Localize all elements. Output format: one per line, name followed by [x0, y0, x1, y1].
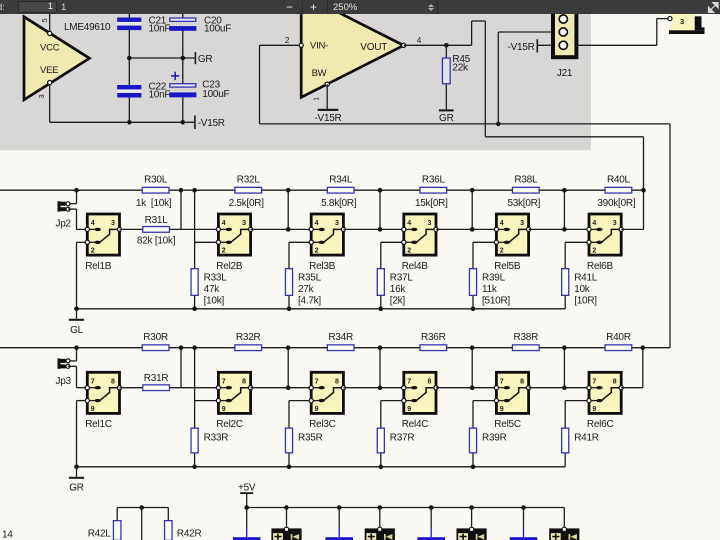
svg-text:R37R: R37R [390, 433, 415, 444]
wire Rel2B pin2 [195, 241, 219, 243]
junction pin-wire stage4 [378, 227, 383, 232]
svg-text:R32R: R32R [236, 332, 261, 343]
svg-text:BW: BW [312, 68, 327, 79]
svg-text:4: 4 [222, 220, 226, 227]
svg-text:R33R: R33R [204, 433, 229, 444]
junction bus to Jp3 [74, 345, 79, 350]
svg-text:53k[0R]: 53k[0R] [507, 198, 540, 209]
junction bus stage4 [378, 188, 383, 193]
svg-text:4: 4 [500, 220, 504, 227]
label R37L [390, 273, 414, 307]
bus wire row C [0, 347, 643, 349]
svg-text:7: 7 [592, 378, 596, 385]
svg-text:J21: J21 [557, 68, 573, 79]
junction bus stage3 [286, 188, 291, 193]
junction GR shunt 2 [192, 465, 197, 470]
svg-text:[2k]: [2k] [390, 296, 406, 307]
capacitor bypass 3 [417, 508, 445, 540]
svg-text:R36L: R36L [422, 175, 446, 186]
capacitor bypass 4 [510, 508, 538, 540]
svg-text:3: 3 [520, 220, 524, 227]
label R33R [204, 433, 229, 444]
svg-text:2: 2 [91, 248, 95, 255]
relay Rel2C [216, 372, 252, 430]
junction rail coil 2 [378, 505, 383, 510]
svg-text:R31R: R31R [144, 373, 169, 384]
wire feedback down right side [643, 124, 670, 348]
junction rail capacitor 1 [244, 505, 249, 510]
label R36R [421, 332, 446, 343]
wire Rel6B pin2 to shunt [565, 242, 589, 268]
svg-text:R34R: R34R [328, 332, 353, 343]
ground GR below R45 [439, 109, 454, 123]
resistor R41L shunt [562, 269, 569, 296]
wire Rel3C pin8 to Rel4C pin7 [343, 387, 403, 389]
junction rail capacitor 3 [429, 505, 434, 510]
wire R41L bottom lead [564, 296, 566, 309]
relay coil K4 [549, 527, 579, 540]
resistor R33R shunt [191, 428, 198, 453]
svg-text:7: 7 [500, 378, 504, 385]
junction bus end R40L [641, 188, 646, 193]
value 5.8k[0R] [321, 198, 357, 209]
svg-text:3: 3 [680, 17, 684, 26]
resistor R31R [143, 385, 170, 391]
label R33L [204, 273, 228, 307]
relay Rel3B [309, 214, 345, 272]
junction VEE rail at C22 [127, 120, 132, 125]
svg-text:15k[0R]: 15k[0R] [415, 198, 448, 209]
svg-text:14: 14 [2, 530, 13, 540]
svg-text:3: 3 [613, 220, 617, 227]
junction GL shunt 3 [287, 307, 292, 312]
svg-text:7: 7 [407, 378, 411, 385]
junction GR shunt 5 [471, 465, 476, 470]
resistor R42R [165, 521, 173, 540]
wire Rel3C pin9 to shunt [289, 401, 311, 428]
pin number 4 [417, 36, 422, 45]
svg-text:7: 7 [91, 378, 95, 385]
svg-text:10nF: 10nF [149, 24, 171, 35]
svg-text:82k [10k]: 82k [10k] [137, 236, 176, 247]
junction bus stage2 B [192, 188, 197, 193]
wire -V15R tick to J21 pin [537, 44, 563, 46]
relay Rel2B [216, 214, 252, 272]
wire VIN- input from feedback [260, 44, 302, 46]
label R38R [514, 332, 539, 343]
svg-text:9: 9 [500, 406, 504, 413]
resistor R37L shunt [377, 269, 384, 296]
wire rail to coil 3 [471, 508, 473, 530]
label U20 LME49610 [64, 22, 111, 33]
junction bus stage2 A [179, 188, 184, 193]
wire rail to coil 2 [379, 508, 381, 530]
relay coil K1 [271, 527, 301, 540]
svg-text:4: 4 [407, 220, 411, 227]
wire bus to Jp2 top pin [68, 190, 77, 204]
label R36L [422, 175, 446, 186]
svg-text:Rel6B: Rel6B [587, 261, 614, 272]
svg-text:4: 4 [315, 220, 319, 227]
label R31R [144, 373, 169, 384]
svg-text:9: 9 [222, 406, 226, 413]
svg-text:3: 3 [37, 95, 46, 99]
svg-text:2: 2 [407, 248, 411, 255]
power +5V [238, 483, 256, 508]
junction bus C stage4 [378, 345, 383, 350]
svg-text:GR: GR [439, 113, 454, 124]
resistor R31L [143, 227, 170, 233]
connector fragment pin 3 top right [668, 14, 705, 34]
junction rail coil 1 [284, 505, 289, 510]
svg-text:Rel2C: Rel2C [216, 419, 243, 430]
wire VEE rail to -V15R [50, 121, 196, 123]
label R42L [88, 529, 112, 540]
label C20 100uF [204, 15, 231, 34]
svg-text:2.5k[0R]: 2.5k[0R] [229, 198, 265, 209]
wire Rel4B pin2 to shunt [381, 242, 404, 268]
wire bus tap C stage4 [379, 348, 381, 388]
net label 14 [2, 530, 13, 540]
label R34L [329, 175, 353, 186]
junction GR rail at C21 [127, 56, 132, 61]
relay coil K3 [457, 527, 487, 540]
resistor R41R shunt [562, 428, 569, 453]
wire Rel4B pin3 to Rel5B pin4 [436, 228, 496, 230]
wire feedback vertical left [259, 45, 261, 124]
junction GL shunt 4 [379, 307, 384, 312]
svg-text:4: 4 [91, 220, 95, 227]
junction GR shunt 3 [287, 465, 292, 470]
junction GL shunt 5 [471, 307, 476, 312]
svg-text:R40R: R40R [606, 332, 631, 343]
junction GR left [74, 465, 79, 470]
pin number 2 [285, 36, 290, 45]
wire VOUT to R45 and loop [404, 21, 486, 137]
svg-text:8: 8 [428, 378, 432, 385]
label R42R [177, 529, 202, 540]
wire R45 bottom lead [445, 84, 447, 109]
wire R33R bottom lead [194, 454, 196, 467]
svg-text:Jp3: Jp3 [56, 376, 72, 387]
net tick -V15R at J21 [507, 39, 537, 53]
svg-text:100uF: 100uF [202, 89, 229, 100]
ground symbol GL [69, 309, 84, 336]
svg-text:9: 9 [407, 406, 411, 413]
svg-text:GL: GL [70, 325, 84, 336]
junction bus C stage6 [562, 345, 567, 350]
svg-text:R36R: R36R [421, 332, 446, 343]
svg-text:Rel6C: Rel6C [587, 419, 614, 430]
svg-text:R38L: R38L [514, 175, 538, 186]
svg-text:R39R: R39R [482, 433, 507, 444]
wire R37R bottom lead [380, 454, 382, 467]
svg-text:3: 3 [242, 220, 246, 227]
value 15k[0R] [415, 198, 448, 209]
resistor R36R [420, 345, 447, 351]
svg-text:1k [10k]: 1k [10k] [136, 198, 172, 209]
wire capacitor column C21/C22 [128, 13, 130, 122]
svg-text:R30R: R30R [143, 332, 168, 343]
junction GR rail at C20 [181, 56, 186, 61]
label R45 22k [452, 54, 470, 73]
wire Rel1C pin9 to GR [77, 401, 88, 467]
net tick GR top [195, 52, 212, 65]
label R38L [514, 175, 538, 186]
resistor R32R [235, 345, 262, 351]
capacitor C22 [117, 85, 141, 98]
junction bus C stage2 A [179, 345, 184, 350]
label R37R [390, 433, 415, 444]
svg-text:R41L: R41L [574, 273, 598, 284]
svg-text:Rel4B: Rel4B [402, 261, 429, 272]
svg-text:2: 2 [592, 248, 596, 255]
resistor R36L [420, 187, 447, 193]
svg-text:7: 7 [315, 378, 319, 385]
label R30L [144, 175, 168, 186]
svg-text:Rel5B: Rel5B [494, 261, 521, 272]
svg-text:R34L: R34L [329, 175, 353, 186]
ground symbol GR [69, 467, 84, 494]
wire Rel1C pin8 to R31R [120, 387, 143, 389]
svg-text:8: 8 [613, 378, 617, 385]
junction bus C stage5 [470, 345, 475, 350]
svg-text:R38R: R38R [514, 332, 539, 343]
resistor R33L shunt [191, 269, 198, 296]
svg-text:-V15R: -V15R [314, 113, 341, 124]
svg-text:R41R: R41R [574, 433, 599, 444]
junction pin-wire stage6 [562, 227, 567, 232]
op-amp U21 buffer [299, 0, 406, 97]
wire R31R to Rel2C pin7 [170, 387, 218, 389]
junction pin-wire C stage5 [470, 385, 475, 390]
net tick -V15R left [195, 115, 225, 129]
svg-text:5.8k[0R]: 5.8k[0R] [321, 198, 357, 209]
svg-text:3: 3 [111, 220, 115, 227]
label R32R [236, 332, 261, 343]
svg-text:9: 9 [315, 406, 319, 413]
svg-text:Rel2B: Rel2B [216, 261, 243, 272]
wire op-amp U20 pin5 to toolbar [49, 13, 51, 33]
svg-text:3: 3 [335, 220, 339, 227]
junction bus to Jp2 [74, 188, 79, 193]
resistor R32L [235, 187, 262, 193]
grey off-page region [0, 14, 591, 150]
svg-text:R32L: R32L [237, 175, 261, 186]
relay Rel3C [309, 372, 345, 430]
svg-text:LME49610: LME49610 [64, 22, 111, 33]
relay Rel5C [494, 372, 530, 430]
wire bus tap C stage6 [563, 348, 565, 388]
wire R39L bottom lead [472, 296, 474, 309]
svg-text:R30L: R30L [144, 175, 168, 186]
junction bus stage6 [562, 188, 567, 193]
svg-text:GR: GR [198, 54, 213, 65]
wire Jp2 to Rel1B pin4 [68, 209, 87, 229]
relay Rel6C [587, 372, 623, 430]
jumper Jp2 [56, 201, 72, 229]
junction pin-wire stage3 [286, 227, 291, 232]
svg-text:100uF: 100uF [204, 24, 231, 35]
capacitor bypass 2 [325, 508, 353, 540]
label J21 [557, 68, 573, 79]
label R35R [298, 433, 323, 444]
svg-text:R35L: R35L [298, 273, 322, 284]
pin number 1 [311, 97, 320, 101]
resistor R35L shunt [285, 269, 292, 296]
svg-text:Rel1B: Rel1B [85, 261, 112, 272]
wire J21 bottom pin to connector 3 [563, 19, 670, 46]
ground bus GL [77, 308, 566, 310]
jumper Jp3 [56, 358, 72, 387]
svg-text:R42R: R42R [177, 529, 202, 540]
resistor R38R [512, 345, 539, 351]
svg-text:Rel3C: Rel3C [309, 419, 336, 430]
wire Rel6C pin9 to shunt [565, 401, 589, 428]
wire op-amp U20 pin3 down to VEE rail [49, 83, 51, 123]
svg-text:11k: 11k [482, 284, 498, 295]
value 390k[0R] [597, 198, 635, 209]
junction feedback to J21 [496, 122, 501, 127]
wire bus tap C stage5 [471, 348, 473, 388]
resistor R40R [605, 345, 632, 351]
relay Rel4B [402, 214, 438, 272]
svg-text:10k: 10k [574, 284, 591, 295]
svg-text:R33L: R33L [204, 273, 228, 284]
value 1k [10k] [136, 198, 172, 209]
wire Rel1B pin3 to R31L [120, 228, 143, 230]
junction GR shunt 4 [379, 465, 384, 470]
svg-text:[10R]: [10R] [574, 296, 597, 307]
svg-text:3: 3 [428, 220, 432, 227]
junction pin-wire stage5 [470, 227, 475, 232]
label R41L [574, 273, 598, 307]
wire bus tap stage4 [379, 190, 381, 229]
wire R33L bottom lead [194, 296, 196, 309]
relay Rel5B [494, 214, 530, 272]
svg-text:R37L: R37L [390, 273, 414, 284]
resistor R40L [605, 187, 632, 193]
wire bus tap to pin4 wire stage2 [180, 190, 182, 229]
wire Rel5B pin2 to shunt [473, 242, 496, 268]
wire bus to Jp3 top pin [68, 348, 77, 361]
junction R42 center [139, 505, 144, 510]
wire Jp3 to Rel1C pin7 [68, 366, 87, 387]
label R31L [145, 215, 169, 226]
svg-text:Rel5C: Rel5C [494, 419, 521, 430]
svg-text:4: 4 [592, 220, 596, 227]
svg-text:5: 5 [40, 19, 49, 23]
wire +5V rail [247, 508, 565, 530]
resistor R34R [327, 345, 354, 351]
svg-text:GR: GR [69, 483, 84, 494]
value 2.5k[0R] [229, 198, 265, 209]
wire output loop to R40L [485, 137, 643, 230]
resistor R34L [327, 187, 354, 193]
svg-text:[10k]: [10k] [204, 296, 225, 307]
plus mark C23 [171, 72, 179, 80]
label R39L [482, 273, 510, 307]
capacitor C23 polarized [169, 84, 196, 98]
label C21 10nF [149, 15, 171, 34]
svg-text:2: 2 [222, 248, 226, 255]
junction pin-wire C stage4 [378, 385, 383, 390]
svg-text:VEE: VEE [40, 65, 58, 76]
relay coil K2 [365, 527, 395, 540]
capacitor C21 [117, 18, 141, 31]
wire Rel5C pin9 to shunt [473, 401, 496, 428]
ground bus GR [77, 466, 566, 468]
svg-text:8: 8 [111, 378, 115, 385]
resistor R39L shunt [469, 269, 476, 296]
resistor R37R shunt [377, 428, 384, 453]
value 82k [10k] [137, 236, 176, 247]
label R40R [606, 332, 631, 343]
op-amp U20 LME49610 [24, 17, 90, 100]
wire Rel4C pin8 to Rel5C pin7 [436, 387, 496, 389]
relay Rel1B [85, 214, 121, 272]
wire Rel2C pin8 to Rel3C pin7 [251, 387, 312, 389]
svg-text:Rel4C: Rel4C [402, 419, 429, 430]
svg-text:R42L: R42L [88, 529, 112, 540]
svg-text:8: 8 [520, 378, 524, 385]
svg-text:9: 9 [592, 406, 596, 413]
resistor R39R shunt [469, 428, 476, 453]
value 53k[0R] [507, 198, 540, 209]
wire bus tap stage6 [563, 190, 565, 229]
label R30R [143, 332, 168, 343]
wire Rel5C pin8 to Rel6C pin7 [529, 387, 589, 389]
wire Rel4C pin9 to shunt [381, 401, 404, 428]
junction VOUT R45 [444, 43, 449, 48]
svg-text:VOUT: VOUT [360, 42, 387, 53]
wire Rel5B pin3 to Rel6B pin4 [529, 228, 589, 230]
capacitor C20 polarized [169, 18, 196, 31]
wire bus tap stage3 [287, 190, 289, 229]
wire bus to shunt R33R [194, 348, 196, 428]
junction bus C stage2 B [192, 345, 197, 350]
power -V15R below BW pin [314, 84, 341, 124]
bus wire row B [0, 189, 644, 191]
wire capacitor column C20/C23 [182, 13, 184, 122]
svg-text:16k: 16k [390, 284, 407, 295]
relay Rel4C [402, 372, 438, 430]
resistor R42L [113, 521, 121, 540]
resistor R38L [512, 187, 539, 193]
resistor R35R shunt [285, 428, 292, 453]
svg-text:27k: 27k [298, 284, 315, 295]
svg-text:2: 2 [500, 248, 504, 255]
wire R31L to Rel2B pin4 [170, 228, 218, 230]
wire Rel6C pin8 to bus end [621, 348, 643, 388]
junction VEE rail at C23 [181, 120, 186, 125]
wire R39R bottom lead [472, 454, 474, 467]
junction pin-wire C stage3 [286, 385, 291, 390]
wire Rel2B pin3 to Rel3B pin4 [251, 228, 312, 230]
wire R35L bottom lead [288, 296, 290, 309]
junction rail coil 3 [469, 505, 474, 510]
pin number 3 [37, 95, 46, 99]
wire bus tap C stage3 [287, 348, 289, 388]
relay Rel1C [85, 372, 121, 430]
junction bus C stage3 [286, 345, 291, 350]
svg-text:R31L: R31L [145, 215, 169, 226]
wire Rel2C pin9 [195, 400, 219, 402]
label C22 10nF [149, 81, 171, 100]
svg-text:8: 8 [335, 378, 339, 385]
resistor R30R [142, 345, 169, 351]
wire Rel3B pin2 to shunt [289, 242, 311, 268]
